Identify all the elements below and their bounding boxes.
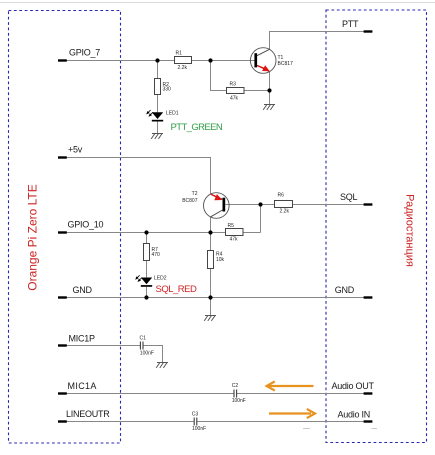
svg-text:GND: GND [335,285,355,295]
svg-text:Orange Pi Zero LTE: Orange Pi Zero LTE [26,184,40,291]
svg-text:GND: GND [73,285,93,295]
svg-text:BC807: BC807 [182,198,198,204]
svg-text:47k: 47k [230,95,239,101]
svg-text:PTT: PTT [342,19,359,29]
svg-text:47k: 47k [230,236,239,242]
svg-text:10k: 10k [216,257,225,263]
svg-text:T2: T2 [192,191,198,197]
svg-text:C3: C3 [192,411,199,417]
svg-text:2.2k: 2.2k [280,208,290,214]
svg-text:SQL_RED: SQL_RED [156,284,197,295]
svg-text:LED2: LED2 [154,275,167,281]
svg-text:100nF: 100nF [232,398,246,404]
svg-text:C1: C1 [140,335,147,341]
svg-text:100nF: 100nF [140,350,154,356]
svg-text:R6: R6 [278,192,285,198]
svg-text:R5: R5 [228,223,235,229]
svg-text:Радиостанция: Радиостанция [404,194,416,267]
svg-text:MIC1A: MIC1A [68,381,97,391]
svg-text:470: 470 [152,252,161,258]
svg-text:R3: R3 [230,81,237,87]
svg-text:BC817: BC817 [278,61,294,67]
svg-text:GPIO_7: GPIO_7 [69,48,100,58]
svg-text:MIC1P: MIC1P [69,333,96,343]
svg-text:2.2k: 2.2k [178,65,188,71]
svg-text:GPIO_10: GPIO_10 [68,220,104,230]
svg-text:100nF: 100nF [192,426,206,432]
svg-text:LED1: LED1 [166,111,179,117]
svg-text:PTT_GREEN: PTT_GREEN [171,122,223,133]
svg-text:R1: R1 [176,51,183,57]
svg-text:330: 330 [163,87,172,93]
svg-text:+5v: +5v [68,144,83,154]
svg-text:LINEOUTR: LINEOUTR [66,409,110,419]
svg-text:Audio IN: Audio IN [338,409,371,419]
svg-text:SQL: SQL [340,192,358,202]
svg-text:Audio OUT: Audio OUT [332,381,375,391]
svg-text:C2: C2 [232,383,239,389]
